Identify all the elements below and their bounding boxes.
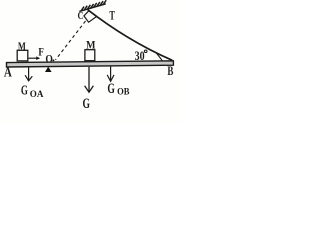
angle arc at B xyxy=(156,53,162,61)
svg-text:A: A xyxy=(4,65,12,80)
svg-text:OA: OA xyxy=(30,90,44,100)
arrow G_OB xyxy=(107,67,114,82)
svg-text:OB: OB xyxy=(117,88,130,98)
svg-text:G: G xyxy=(107,81,115,97)
rope T xyxy=(88,10,173,61)
svg-text:30: 30 xyxy=(135,49,145,63)
anchor square C (rotated block at ceiling) xyxy=(84,11,97,23)
block M1 xyxy=(17,50,28,61)
svg-text:B: B xyxy=(167,63,173,78)
ceiling line xyxy=(79,4,106,12)
svg-text:T: T xyxy=(109,7,115,22)
svg-text:O: O xyxy=(45,54,53,66)
fulcrum triangle at O xyxy=(45,67,52,72)
svg-text:C: C xyxy=(78,11,84,22)
block M2 xyxy=(85,50,95,61)
svg-text:F: F xyxy=(38,44,44,58)
dot after O xyxy=(52,59,54,61)
svg-text:G: G xyxy=(83,96,91,112)
svg-text:M: M xyxy=(18,41,26,53)
arrow G_OA xyxy=(25,67,32,81)
ceiling hatching xyxy=(81,0,107,11)
svg-text:G: G xyxy=(21,83,28,98)
svg-text:M: M xyxy=(86,40,96,52)
dashed line O to C xyxy=(56,21,86,60)
beam AB xyxy=(7,61,174,67)
force F arrow xyxy=(28,57,37,59)
arrow G xyxy=(85,67,94,92)
